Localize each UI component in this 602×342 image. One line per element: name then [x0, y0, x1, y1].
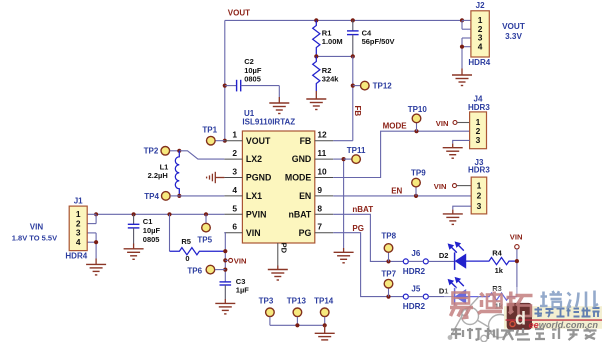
svg-text:3: 3	[232, 167, 237, 177]
svg-text:HDR2: HDR2	[403, 267, 426, 276]
LED D2	[454, 252, 456, 270]
svg-text:VIN: VIN	[434, 182, 447, 191]
node junction dot VIN/R4	[515, 259, 519, 263]
svg-text:TP13: TP13	[287, 297, 307, 306]
svg-text:D2: D2	[439, 251, 449, 260]
connector J6	[403, 259, 408, 264]
node junction dot L1/TP4	[177, 194, 181, 198]
test point TP14	[320, 308, 329, 317]
wire VOUT horizontal rail	[225, 19, 462, 21]
svg-text:J2: J2	[476, 1, 485, 10]
svg-text:2.2µH: 2.2µH	[148, 171, 168, 180]
svg-text:0: 0	[185, 254, 189, 263]
svg-text:6: 6	[232, 222, 237, 232]
svg-text:VIN: VIN	[246, 228, 261, 238]
svg-text:3: 3	[476, 135, 481, 145]
ground below R2	[315, 91, 317, 99]
wire VIN vertical to R3	[516, 249, 518, 297]
node junction dot nBAT/TP8	[386, 259, 390, 263]
watermark logo square	[507, 303, 532, 330]
watermark big character xun	[568, 291, 599, 308]
U1 pin 9 stub	[315, 195, 333, 197]
svg-text:LX1: LX1	[246, 191, 262, 201]
connector J1	[69, 206, 87, 251]
connector J2 wires pins 3-4	[462, 37, 471, 39]
connector J1 wires pins 1-2	[87, 213, 96, 215]
svg-text:J5: J5	[411, 284, 420, 293]
capacitor C4	[352, 20, 354, 31]
watermark brand characters dianzi gongcheng shijie	[535, 307, 600, 317]
svg-text:HDR4: HDR4	[468, 58, 490, 67]
svg-text:TP6: TP6	[187, 266, 202, 275]
svg-text:4: 4	[76, 237, 81, 247]
wire J6 to D2	[428, 260, 454, 262]
node junction dot TP2/L1	[177, 149, 181, 153]
wire EN net	[333, 195, 471, 197]
svg-text:d: d	[515, 309, 526, 329]
connector J3	[471, 177, 487, 214]
svg-text:7: 7	[317, 222, 322, 232]
svg-text:1k: 1k	[495, 266, 504, 275]
svg-text:4: 4	[232, 185, 237, 195]
node junction dot J1 pins3-4	[94, 240, 98, 244]
svg-text:TP5: TP5	[197, 235, 212, 244]
node junction dot R5/pin6	[223, 249, 227, 253]
capacitor C1	[133, 214, 135, 224]
wire FB to pin 12	[333, 140, 353, 142]
capacitor C3	[220, 281, 232, 283]
svg-text:PVIN: PVIN	[246, 209, 267, 219]
svg-text:VOUT: VOUT	[246, 136, 271, 146]
ground below TP14	[324, 325, 326, 333]
node junction dot VOUT/R1	[314, 18, 318, 22]
svg-text:1.00M: 1.00M	[322, 37, 343, 46]
node junction dot C4/FB	[351, 54, 355, 58]
svg-text:PD: PD	[279, 243, 288, 254]
node junction dot VOUT/C2	[223, 84, 227, 88]
svg-text:TP3: TP3	[259, 297, 274, 306]
svg-text:FB: FB	[353, 106, 362, 117]
test point TP5	[205, 214, 207, 223]
node junction dot FB/TP12	[351, 84, 355, 88]
svg-text:1: 1	[232, 130, 237, 140]
svg-text:TP11: TP11	[347, 146, 366, 155]
U1 pin 8 stub	[315, 213, 333, 215]
svg-text:HDR3: HDR3	[468, 166, 490, 175]
svg-text:8: 8	[317, 203, 322, 213]
svg-text:EN: EN	[299, 191, 311, 201]
test point TP9	[415, 187, 417, 196]
wire MODE net	[333, 131, 469, 177]
node junction dot PG/TP7	[386, 295, 390, 299]
svg-text:TP2: TP2	[144, 147, 159, 156]
node junction dot VOUT/J2	[460, 18, 464, 22]
svg-text:11: 11	[317, 148, 326, 158]
svg-text:C1: C1	[143, 217, 153, 226]
svg-text:VOUT: VOUT	[502, 22, 525, 31]
test point TP1	[215, 140, 224, 142]
test point TP11	[344, 158, 352, 160]
ground at J4 pin3	[453, 140, 470, 143]
svg-text:TP7: TP7	[381, 270, 396, 279]
resistor R4	[466, 258, 517, 265]
U1 pin 6 stub	[224, 232, 242, 234]
watermark slogan characters	[451, 328, 597, 340]
node junction dot TP14	[323, 323, 327, 327]
node junction dot rail/J1	[94, 212, 98, 216]
ground below PD	[277, 266, 279, 270]
svg-text:1µF: 1µF	[236, 285, 249, 294]
svg-text:TP14: TP14	[314, 297, 334, 306]
connector J1 wires pins 3-4	[87, 232, 96, 234]
node junction dot J2 pins3-4	[460, 45, 464, 49]
node junction dot TP13	[295, 323, 299, 327]
resistor R2	[313, 56, 320, 91]
node junction dot TP6	[223, 268, 227, 272]
wire R1 bottom to C4 bottom	[316, 55, 353, 57]
svg-text:2: 2	[232, 148, 237, 158]
svg-text:R4: R4	[492, 249, 502, 258]
svg-text:nBAT: nBAT	[288, 209, 311, 219]
inductor L1	[175, 151, 179, 196]
svg-text:2: 2	[477, 191, 482, 201]
LED D1	[454, 288, 456, 306]
watermark big character pei	[540, 291, 562, 307]
svg-text:VOUT: VOUT	[228, 9, 250, 18]
node junction dot MODE/TP10	[414, 129, 418, 133]
resistor R3	[466, 293, 517, 300]
svg-text:TP1: TP1	[202, 125, 217, 134]
svg-text:5: 5	[232, 203, 237, 213]
U1 pin 5 stub	[224, 213, 242, 215]
svg-text:PG: PG	[299, 228, 312, 238]
ground below C2	[278, 97, 280, 103]
test point TP6	[206, 265, 215, 274]
svg-text:10µF: 10µF	[143, 226, 161, 235]
watermark big character di	[478, 292, 502, 314]
svg-text:HDR2: HDR2	[403, 302, 426, 311]
connector J2	[471, 11, 489, 57]
node junction dot R1/R2	[314, 54, 318, 58]
U1 pin PD stub and label	[277, 243, 279, 266]
test point TP8	[388, 253, 390, 262]
wire VIN pin6 branch vertical	[223, 233, 226, 282]
svg-text:TP9: TP9	[411, 168, 426, 177]
svg-text:TP12: TP12	[373, 81, 393, 90]
watermark big character tuo	[507, 292, 533, 317]
svg-text:LX2: LX2	[246, 154, 262, 164]
connector J5	[403, 294, 408, 299]
node junction dot EN/TP9	[414, 194, 418, 198]
node junction dot VOUT/C4	[351, 18, 355, 22]
wire VIN rail J1 to PVIN	[96, 213, 224, 215]
wire TP3-TP13-TP14 rail	[270, 324, 325, 326]
svg-text:FB: FB	[300, 136, 312, 146]
watermark big character yi	[450, 293, 473, 318]
svg-text:1.8V TO 5.5V: 1.8V TO 5.5V	[12, 234, 57, 243]
watermark molecule sketch	[448, 297, 521, 342]
wire VOUT vertical to U1 pin1	[224, 20, 226, 140]
svg-text:9: 9	[317, 185, 322, 195]
svg-text:324k: 324k	[322, 75, 340, 84]
U1 pin 4 stub	[224, 195, 242, 197]
svg-text:PG: PG	[352, 224, 364, 233]
test point TP12	[353, 85, 360, 87]
test point TP3	[266, 308, 275, 317]
svg-text:HDR3: HDR3	[468, 103, 490, 112]
svg-text:PGND: PGND	[246, 173, 271, 183]
test point TP7	[388, 288, 390, 296]
test point TP13	[293, 308, 302, 317]
svg-text:EN: EN	[391, 186, 402, 195]
test point TP4	[162, 192, 171, 201]
svg-text:R5: R5	[181, 237, 191, 246]
svg-text:TP10: TP10	[408, 105, 428, 114]
svg-text:nBAT: nBAT	[352, 205, 373, 214]
svg-text:1: 1	[477, 180, 482, 190]
node junction dot VIN tap	[223, 258, 227, 262]
wire GND net pin11	[333, 158, 343, 160]
wire L1 to LX1 pin 4	[179, 195, 224, 197]
svg-text:4: 4	[478, 41, 483, 51]
wire PG net	[333, 233, 403, 297]
ground below C3	[224, 299, 226, 303]
svg-text:C2: C2	[244, 57, 254, 66]
test point TP2	[161, 147, 170, 156]
svg-text:56pF/50V: 56pF/50V	[362, 37, 395, 46]
node junction dot VOUT/TP1	[223, 139, 227, 143]
op-amp U1 ISL9110IRTAZ body	[242, 131, 314, 243]
U1 pin 12 stub	[315, 140, 333, 142]
watermark red underline	[506, 319, 602, 321]
ground below J2	[461, 69, 463, 76]
node junction dot GND/TP11	[342, 157, 346, 161]
svg-text:VIN: VIN	[510, 232, 523, 241]
wire FB net vertical	[352, 56, 354, 140]
ground GND net	[343, 248, 345, 252]
svg-text:10: 10	[317, 167, 327, 177]
svg-text:J6: J6	[411, 249, 420, 258]
U1 pin 1 stub	[224, 140, 242, 142]
resistor R5	[169, 214, 171, 251]
node junction dot rail/R5	[167, 212, 171, 216]
svg-text:VIN: VIN	[30, 222, 44, 231]
connector J4	[470, 112, 487, 149]
svg-text:J1: J1	[74, 196, 83, 205]
svg-text:ISL9110IRTAZ: ISL9110IRTAZ	[242, 118, 295, 127]
ground below C1	[133, 244, 135, 249]
U1 pin 2 stub	[224, 158, 242, 160]
U1 pin 3 stub	[224, 177, 242, 179]
svg-text:TP8: TP8	[381, 232, 396, 241]
svg-text:VIN: VIN	[436, 119, 449, 128]
watermark	[444, 287, 602, 342]
svg-text:3: 3	[477, 201, 482, 211]
svg-text:3.3V: 3.3V	[505, 32, 522, 41]
svg-text:MODE: MODE	[285, 173, 312, 183]
svg-text:TP4: TP4	[144, 192, 159, 201]
node junction dot rail/C1	[132, 212, 136, 216]
resistor R1	[313, 20, 320, 56]
ground at PGND pin 3 (rotated)	[215, 177, 224, 179]
svg-text:12: 12	[317, 130, 327, 140]
wire J5 to D1	[428, 296, 454, 298]
wire TP2 to LX2 pin 2 (diagonal)	[179, 151, 224, 159]
ground below J1	[95, 259, 97, 265]
ground at J3 pin3	[453, 206, 471, 209]
test point TP10	[416, 123, 418, 131]
svg-text:GND: GND	[292, 154, 312, 164]
connector J2 wires pins 1-2	[462, 19, 471, 21]
svg-text:HDR4: HDR4	[65, 251, 87, 260]
node junction dot rail/TP5	[204, 212, 208, 216]
svg-text:0805: 0805	[244, 74, 261, 83]
svg-text:MODE: MODE	[383, 122, 408, 131]
svg-text:0805: 0805	[143, 235, 160, 244]
svg-text:VIN: VIN	[234, 256, 247, 265]
wire nBAT net	[333, 214, 403, 261]
capacitor C2	[225, 85, 237, 87]
watermark cream band	[504, 306, 602, 329]
U1 pin 7 stub	[315, 232, 333, 234]
U1 pin 10 stub	[315, 177, 333, 179]
node VIN net flag at C3	[225, 259, 228, 261]
U1 pin 11 stub	[315, 158, 333, 160]
